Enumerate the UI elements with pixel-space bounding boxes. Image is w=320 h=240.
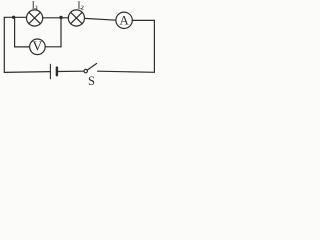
node junction J2 — [59, 16, 62, 19]
wire left vertical — [3, 17, 5, 72]
switch S — [84, 64, 97, 88]
node junction J1 — [12, 16, 15, 19]
wire voltmeter branch left drop — [14, 17, 16, 47]
wire voltmeter branch right riser — [60, 18, 62, 47]
ammeter U2 A — [116, 12, 132, 28]
wire voltmeter branch left horizontal — [15, 46, 30, 48]
voltmeter U1 V — [30, 39, 46, 55]
battery B1 — [50, 64, 57, 78]
svg-text:1: 1 — [35, 5, 38, 12]
wire between L1 and L2 — [43, 17, 69, 19]
wire between L2 and ammeter — [85, 18, 117, 20]
wire voltmeter branch right horizontal — [45, 46, 61, 48]
wire battery to switch — [58, 70, 84, 72]
wire top-left segment — [4, 16, 26, 18]
wire right vertical — [153, 20, 155, 72]
wire bottom-right segment — [98, 71, 155, 72]
lamp L2 — [68, 1, 84, 27]
svg-text:S: S — [88, 74, 95, 88]
svg-text:2: 2 — [81, 5, 84, 12]
svg-text:A: A — [119, 13, 129, 28]
wire ammeter to top-right corner — [132, 19, 154, 21]
lamp L1 — [26, 1, 42, 27]
wire bottom-left segment — [4, 71, 50, 74]
svg-text:V: V — [33, 39, 43, 54]
